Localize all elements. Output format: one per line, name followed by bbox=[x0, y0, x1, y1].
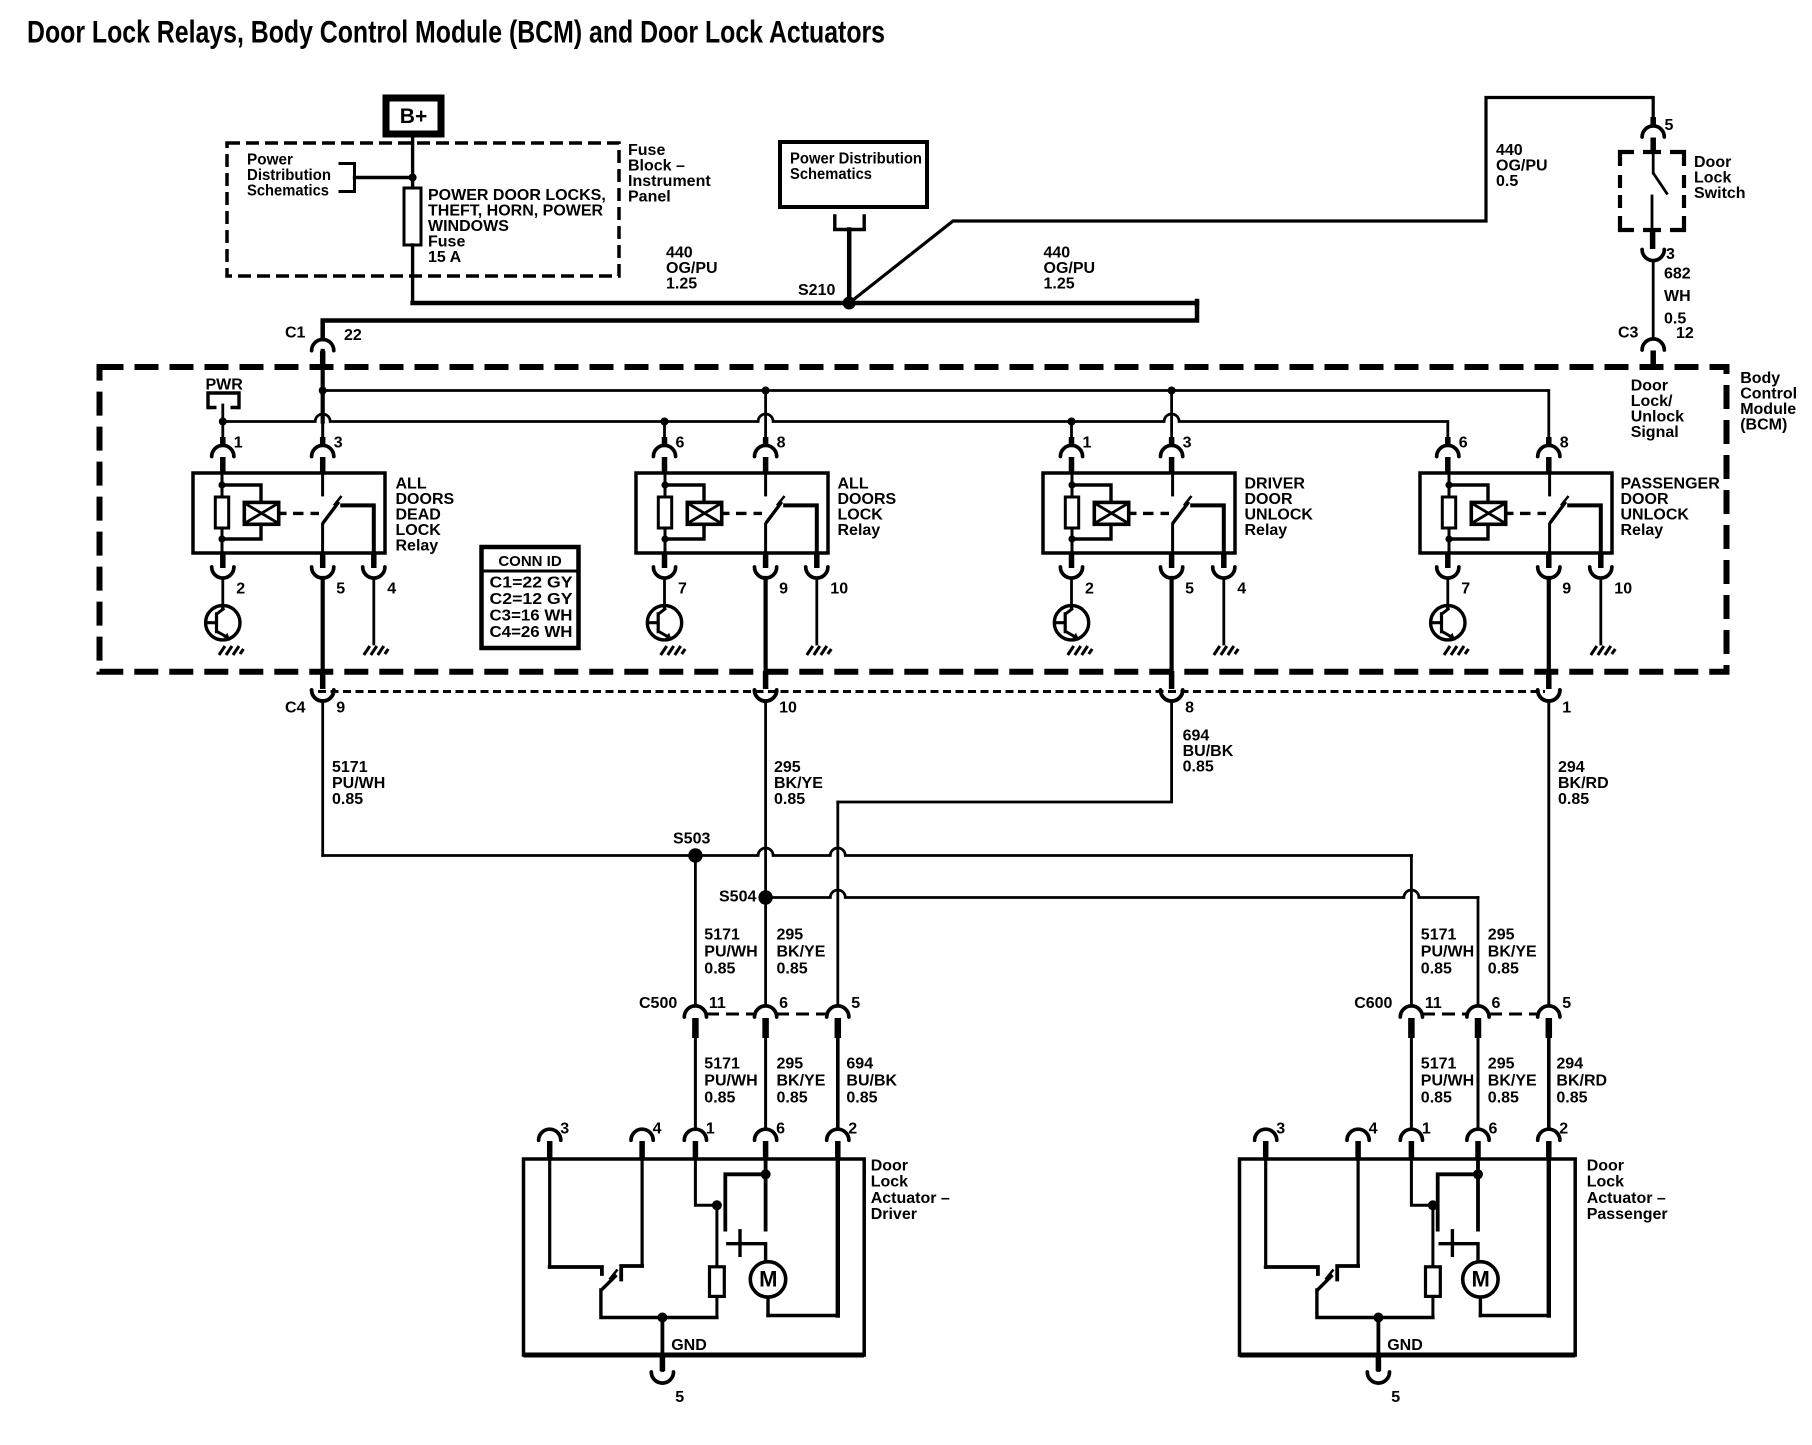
svg-text:DOORS: DOORS bbox=[838, 491, 897, 508]
svg-text:DOORS: DOORS bbox=[396, 491, 455, 508]
svg-text:Panel: Panel bbox=[628, 189, 671, 206]
svg-text:5171: 5171 bbox=[704, 1056, 740, 1073]
svg-text:PU/WH: PU/WH bbox=[1421, 944, 1474, 961]
svg-text:0.85: 0.85 bbox=[774, 791, 805, 808]
svg-text:S504: S504 bbox=[719, 889, 756, 906]
svg-text:5: 5 bbox=[1562, 995, 1571, 1012]
svg-text:294: 294 bbox=[1558, 759, 1585, 776]
svg-text:2: 2 bbox=[848, 1121, 857, 1138]
svg-text:682: 682 bbox=[1664, 266, 1691, 283]
svg-text:C3=16 WH: C3=16 WH bbox=[490, 608, 573, 625]
svg-text:Lock: Lock bbox=[871, 1174, 908, 1191]
svg-text:Actuator –: Actuator – bbox=[871, 1190, 950, 1207]
svg-text:BK/RD: BK/RD bbox=[1558, 775, 1609, 792]
svg-text:C600: C600 bbox=[1354, 995, 1392, 1012]
svg-text:Relay: Relay bbox=[1245, 522, 1288, 539]
svg-text:5: 5 bbox=[851, 995, 860, 1012]
svg-text:S503: S503 bbox=[673, 831, 710, 848]
svg-text:0.85: 0.85 bbox=[1558, 791, 1589, 808]
svg-text:DRIVER: DRIVER bbox=[1245, 476, 1306, 493]
svg-text:7: 7 bbox=[1461, 581, 1470, 598]
svg-text:1: 1 bbox=[706, 1121, 715, 1138]
svg-text:5: 5 bbox=[336, 581, 345, 598]
svg-text:6: 6 bbox=[776, 1121, 785, 1138]
svg-text:DOOR: DOOR bbox=[1245, 491, 1293, 508]
svg-text:3: 3 bbox=[1183, 435, 1192, 452]
svg-text:BK/RD: BK/RD bbox=[1556, 1073, 1607, 1090]
svg-text:6: 6 bbox=[1489, 1121, 1498, 1138]
svg-text:Power Distribution: Power Distribution bbox=[790, 151, 922, 168]
svg-text:BU/BK: BU/BK bbox=[846, 1073, 897, 1090]
svg-text:WINDOWS: WINDOWS bbox=[428, 218, 509, 235]
svg-text:6: 6 bbox=[1492, 995, 1501, 1012]
svg-text:C1: C1 bbox=[285, 325, 306, 342]
svg-text:Control: Control bbox=[1740, 386, 1797, 403]
svg-text:0.85: 0.85 bbox=[704, 1090, 735, 1107]
svg-text:BK/YE: BK/YE bbox=[774, 775, 823, 792]
svg-text:2: 2 bbox=[236, 581, 245, 598]
svg-text:11: 11 bbox=[709, 995, 726, 1012]
svg-text:11: 11 bbox=[1425, 995, 1442, 1012]
svg-text:Distribution: Distribution bbox=[247, 167, 331, 184]
svg-text:0.85: 0.85 bbox=[777, 1090, 808, 1107]
svg-text:5171: 5171 bbox=[1421, 927, 1457, 944]
svg-text:DEAD: DEAD bbox=[396, 507, 441, 524]
svg-text:22: 22 bbox=[344, 327, 362, 344]
svg-text:694: 694 bbox=[846, 1056, 873, 1073]
svg-text:Instrument: Instrument bbox=[628, 173, 711, 190]
svg-text:6: 6 bbox=[1459, 435, 1468, 452]
svg-text:440: 440 bbox=[666, 245, 693, 262]
svg-text:440: 440 bbox=[1044, 245, 1071, 262]
svg-text:Door: Door bbox=[1587, 1157, 1624, 1174]
svg-text:15 A: 15 A bbox=[428, 249, 462, 266]
svg-text:5171: 5171 bbox=[332, 759, 368, 776]
svg-text:3: 3 bbox=[1276, 1121, 1285, 1138]
svg-text:9: 9 bbox=[779, 581, 788, 598]
svg-text:4: 4 bbox=[1369, 1121, 1378, 1138]
svg-text:LOCK: LOCK bbox=[838, 507, 884, 524]
svg-text:Actuator –: Actuator – bbox=[1587, 1190, 1666, 1207]
svg-text:(BCM): (BCM) bbox=[1740, 417, 1787, 434]
svg-text:BK/YE: BK/YE bbox=[1488, 944, 1537, 961]
svg-text:BK/YE: BK/YE bbox=[777, 944, 826, 961]
svg-text:BK/YE: BK/YE bbox=[1488, 1073, 1537, 1090]
svg-text:CONN ID: CONN ID bbox=[498, 553, 562, 570]
svg-text:Schematics: Schematics bbox=[790, 166, 872, 183]
svg-text:UNLOCK: UNLOCK bbox=[1245, 507, 1314, 524]
svg-text:295: 295 bbox=[777, 1056, 804, 1073]
svg-text:5: 5 bbox=[675, 1389, 684, 1406]
svg-text:1.25: 1.25 bbox=[1044, 276, 1075, 293]
svg-text:1: 1 bbox=[1422, 1121, 1431, 1138]
svg-text:0.85: 0.85 bbox=[846, 1090, 877, 1107]
svg-text:5: 5 bbox=[1665, 117, 1674, 134]
svg-text:C500: C500 bbox=[639, 995, 677, 1012]
svg-text:Relay: Relay bbox=[396, 538, 439, 555]
svg-text:0.5: 0.5 bbox=[1496, 173, 1518, 190]
svg-text:C4: C4 bbox=[285, 700, 306, 717]
svg-text:Lock: Lock bbox=[1694, 170, 1731, 187]
svg-text:5: 5 bbox=[1391, 1389, 1400, 1406]
svg-text:0.85: 0.85 bbox=[1421, 1090, 1452, 1107]
svg-text:PU/WH: PU/WH bbox=[1421, 1073, 1474, 1090]
svg-text:C1=22 GY: C1=22 GY bbox=[490, 575, 574, 592]
svg-text:ALL: ALL bbox=[838, 476, 869, 493]
svg-text:295: 295 bbox=[777, 927, 804, 944]
svg-text:Door Lock Relays, Body Control: Door Lock Relays, Body Control Module (B… bbox=[27, 14, 885, 50]
svg-text:LOCK: LOCK bbox=[396, 522, 442, 539]
svg-text:Body: Body bbox=[1740, 370, 1780, 387]
svg-text:0.85: 0.85 bbox=[1556, 1090, 1587, 1107]
svg-text:Unlock: Unlock bbox=[1631, 408, 1684, 425]
svg-text:BU/BK: BU/BK bbox=[1183, 743, 1234, 760]
svg-text:PU/WH: PU/WH bbox=[704, 944, 757, 961]
svg-text:Power: Power bbox=[247, 152, 293, 169]
svg-text:9: 9 bbox=[336, 700, 345, 717]
svg-text:694: 694 bbox=[1183, 728, 1210, 745]
svg-text:Door: Door bbox=[1631, 377, 1668, 394]
svg-text:DOOR: DOOR bbox=[1621, 491, 1669, 508]
svg-text:B+: B+ bbox=[400, 105, 427, 128]
svg-text:Signal: Signal bbox=[1631, 424, 1679, 441]
svg-text:M: M bbox=[759, 1267, 777, 1292]
svg-text:2: 2 bbox=[1559, 1121, 1568, 1138]
svg-text:8: 8 bbox=[777, 435, 786, 452]
svg-text:S210: S210 bbox=[798, 282, 835, 299]
svg-text:Block –: Block – bbox=[628, 158, 685, 175]
svg-text:THEFT, HORN, POWER: THEFT, HORN, POWER bbox=[428, 203, 604, 220]
svg-text:1: 1 bbox=[1562, 700, 1571, 717]
svg-text:0.85: 0.85 bbox=[332, 791, 363, 808]
svg-text:5171: 5171 bbox=[704, 927, 740, 944]
svg-text:GND: GND bbox=[671, 1337, 707, 1354]
svg-text:0.85: 0.85 bbox=[1488, 1090, 1519, 1107]
svg-text:Schematics: Schematics bbox=[247, 183, 329, 200]
svg-text:440: 440 bbox=[1496, 142, 1523, 159]
svg-text:C3: C3 bbox=[1618, 325, 1639, 342]
svg-text:UNLOCK: UNLOCK bbox=[1621, 507, 1690, 524]
svg-text:M: M bbox=[1472, 1267, 1490, 1292]
svg-text:10: 10 bbox=[830, 581, 848, 598]
svg-text:5: 5 bbox=[1185, 581, 1194, 598]
svg-text:PASSENGER: PASSENGER bbox=[1621, 476, 1721, 493]
svg-text:OG/PU: OG/PU bbox=[666, 260, 718, 277]
svg-text:PU/WH: PU/WH bbox=[704, 1073, 757, 1090]
svg-text:294: 294 bbox=[1556, 1056, 1583, 1073]
svg-text:Lock: Lock bbox=[1587, 1174, 1624, 1191]
svg-text:BK/YE: BK/YE bbox=[777, 1073, 826, 1090]
svg-text:OG/PU: OG/PU bbox=[1044, 260, 1096, 277]
svg-text:Passenger: Passenger bbox=[1587, 1206, 1668, 1223]
svg-text:2: 2 bbox=[1085, 581, 1094, 598]
svg-text:0.85: 0.85 bbox=[1421, 961, 1452, 978]
svg-text:GND: GND bbox=[1387, 1337, 1423, 1354]
svg-text:1: 1 bbox=[234, 435, 243, 452]
svg-text:10: 10 bbox=[779, 700, 797, 717]
svg-text:295: 295 bbox=[1488, 927, 1515, 944]
svg-text:4: 4 bbox=[387, 581, 396, 598]
svg-text:PWR: PWR bbox=[206, 377, 244, 394]
svg-text:0.85: 0.85 bbox=[704, 961, 735, 978]
svg-text:Door: Door bbox=[871, 1157, 908, 1174]
svg-text:Relay: Relay bbox=[1621, 522, 1664, 539]
svg-text:Fuse: Fuse bbox=[628, 142, 665, 159]
svg-text:6: 6 bbox=[779, 995, 788, 1012]
svg-text:9: 9 bbox=[1562, 581, 1571, 598]
svg-text:Relay: Relay bbox=[838, 522, 881, 539]
svg-text:ALL: ALL bbox=[396, 476, 427, 493]
svg-text:C2=12 GY: C2=12 GY bbox=[490, 591, 574, 608]
svg-text:8: 8 bbox=[1560, 435, 1569, 452]
svg-text:0.85: 0.85 bbox=[1183, 759, 1214, 776]
svg-text:3: 3 bbox=[1666, 246, 1675, 263]
svg-text:0.85: 0.85 bbox=[777, 961, 808, 978]
svg-text:4: 4 bbox=[1237, 581, 1246, 598]
svg-text:Driver: Driver bbox=[871, 1206, 917, 1223]
svg-text:1.25: 1.25 bbox=[666, 276, 697, 293]
svg-text:PU/WH: PU/WH bbox=[332, 775, 385, 792]
svg-text:12: 12 bbox=[1676, 325, 1694, 342]
svg-text:295: 295 bbox=[1488, 1056, 1515, 1073]
svg-text:Fuse: Fuse bbox=[428, 234, 465, 251]
svg-text:7: 7 bbox=[678, 581, 687, 598]
svg-text:3: 3 bbox=[334, 435, 343, 452]
svg-text:OG/PU: OG/PU bbox=[1496, 158, 1548, 175]
svg-text:C4=26 WH: C4=26 WH bbox=[490, 624, 573, 641]
svg-text:4: 4 bbox=[653, 1121, 662, 1138]
svg-text:295: 295 bbox=[774, 759, 801, 776]
svg-text:8: 8 bbox=[1185, 700, 1194, 717]
svg-text:Switch: Switch bbox=[1694, 185, 1746, 202]
svg-text:10: 10 bbox=[1614, 581, 1632, 598]
svg-text:5171: 5171 bbox=[1421, 1056, 1457, 1073]
svg-text:Door: Door bbox=[1694, 154, 1731, 171]
svg-text:6: 6 bbox=[676, 435, 685, 452]
svg-text:Module: Module bbox=[1740, 401, 1796, 418]
svg-text:Lock/: Lock/ bbox=[1631, 393, 1673, 410]
svg-text:WH: WH bbox=[1664, 288, 1691, 305]
svg-text:1: 1 bbox=[1083, 435, 1092, 452]
svg-text:POWER DOOR LOCKS,: POWER DOOR LOCKS, bbox=[428, 187, 606, 204]
svg-text:0.85: 0.85 bbox=[1488, 961, 1519, 978]
svg-text:3: 3 bbox=[560, 1121, 569, 1138]
